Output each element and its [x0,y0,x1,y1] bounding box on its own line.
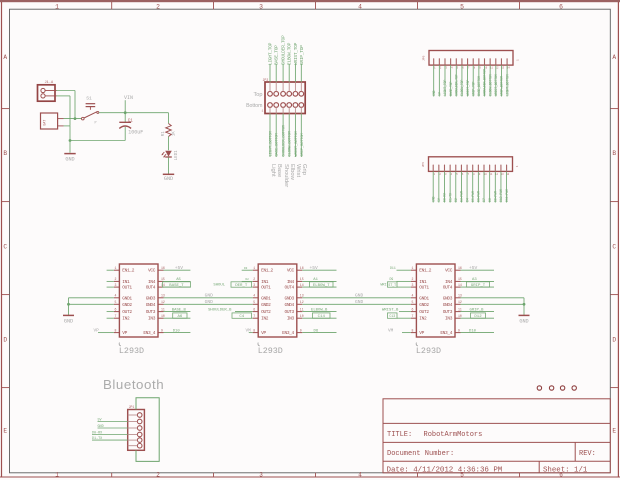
svg-text:GND4: GND4 [146,302,156,308]
svg-text:5: 5 [460,4,464,11]
svg-text:2: 2 [253,277,255,281]
svg-text:D6-PWM: D6-PWM [477,191,481,202]
svg-text:RobotArmMotors: RobotArmMotors [424,431,483,439]
svg-text:+5V: +5V [469,265,478,271]
svg-text:1K: 1K [173,131,177,137]
svg-text:11: 11 [300,307,304,311]
svg-text:Grip: Grip [301,164,307,175]
svg-text:IN4: IN4 [445,279,453,285]
svg-text:Shoulder: Shoulder [283,164,289,187]
svg-text:14: 14 [161,283,165,287]
svg-text:Date: 4/11/2012 4:36:36 PM: Date: 4/11/2012 4:36:36 PM [387,466,503,474]
svg-text:IN2: IN2 [122,316,130,322]
svg-text:L293D: L293D [416,346,441,356]
svg-text:9: 9 [300,328,302,332]
svg-text:IN2: IN2 [261,316,269,322]
svg-text:3: 3 [411,283,413,287]
svg-text:IN3: IN3 [148,316,156,322]
svg-text:VCC: VCC [287,268,295,274]
svg-text:IN2: IN2 [419,316,427,322]
svg-text:13: 13 [458,294,462,298]
svg-text:WRIST_TOP: WRIST_TOP [466,80,470,96]
svg-text:D0-RX: D0-RX [443,193,447,202]
svg-text:GND: GND [519,318,528,324]
svg-text:GND: GND [355,299,364,305]
svg-text:GND: GND [205,293,214,299]
svg-text:4: 4 [253,294,255,298]
svg-text:3: 3 [259,4,263,11]
svg-text:VIN: VIN [124,95,133,101]
svg-text:D11: D11 [390,266,396,270]
svg-text:1: 1 [411,266,413,270]
svg-text:IN3: IN3 [287,316,295,322]
svg-text:16: 16 [300,266,304,270]
svg-text:6: 6 [253,307,255,311]
svg-text:GND: GND [98,425,104,429]
svg-text:4: 4 [114,294,116,298]
svg-text:GND1: GND1 [122,295,132,301]
svg-text:4: 4 [358,472,362,479]
svg-text:EN1_2: EN1_2 [122,268,134,274]
svg-text:3: 3 [253,283,255,287]
svg-text:9: 9 [161,328,163,332]
svg-text:EN1_2: EN1_2 [261,268,273,274]
svg-text:GND3: GND3 [443,295,453,301]
svg-text:16: 16 [458,266,462,270]
svg-text:5: 5 [114,300,116,304]
svg-text:A: A [3,54,7,61]
svg-text:P: P [95,122,97,126]
svg-text:11: 11 [161,307,165,311]
svg-text:VM: VM [246,328,252,333]
svg-text:OUT3: OUT3 [284,309,294,315]
svg-text:D8: D8 [488,198,492,202]
svg-text:WRIST_B: WRIST_B [382,308,399,312]
svg-text:WRIST_BOTTOM: WRIST_BOTTOM [494,74,498,96]
svg-text:ELBOW_BOTTOM: ELBOW_BOTTOM [289,130,293,156]
svg-text:TITLE:: TITLE: [387,431,412,439]
svg-text:13: 13 [300,294,304,298]
svg-text:GRIP_T: GRIP_T [471,284,486,288]
svg-text:D: D [612,336,616,343]
svg-text:C4: C4 [239,315,244,319]
svg-text:SHOUL: SHOUL [213,284,225,288]
svg-text:ST_T: ST_T [388,283,396,287]
svg-text:VCC: VCC [445,268,453,274]
svg-text:EN3_4: EN3_4 [143,330,155,336]
svg-text:REV:: REV: [579,450,596,458]
svg-text:12: 12 [458,300,462,304]
svg-text:7: 7 [253,314,255,318]
svg-text:BASE_TOP: BASE_TOP [449,81,453,95]
svg-text:IN4: IN4 [148,279,156,285]
svg-text:DER_T: DER_T [235,284,248,288]
svg-text:1: 1 [55,472,59,479]
svg-text:Elbow: Elbow [289,164,295,181]
svg-text:D11-PWM: D11-PWM [505,189,509,202]
svg-text:GRIP_TOP: GRIP_TOP [471,81,475,95]
svg-text:LIGHT_BOTTOM: LIGHT_BOTTOM [270,130,274,156]
svg-text:OUT2: OUT2 [261,309,271,315]
svg-text:ELBOW_B: ELBOW_B [311,308,328,312]
svg-text:L293D: L293D [119,346,144,356]
svg-text:SHOULDER_B: SHOULDER_B [208,308,232,312]
svg-text:GRIP_BOTTOM: GRIP_BOTTOM [301,132,305,156]
svg-text:100uF: 100uF [128,129,143,135]
svg-text:5V: 5V [438,92,442,96]
svg-text:BAT: BAT [43,120,47,126]
svg-text:6: 6 [559,4,563,11]
svg-text:WRIST_BOTTOM: WRIST_BOTTOM [295,130,299,156]
svg-text:VP: VP [261,330,266,336]
svg-text:D1-TX: D1-TX [92,437,102,441]
svg-text:IN4: IN4 [287,279,295,285]
svg-text:GND: GND [431,196,435,202]
svg-text:WRIST_TOP: WRIST_TOP [293,42,299,65]
svg-text:2: 2 [156,472,160,479]
svg-text:JP6: JP6 [423,55,426,61]
svg-text:Document Number:: Document Number: [387,450,454,458]
svg-text:OUT2: OUT2 [419,309,429,315]
svg-text:D10: D10 [173,329,181,333]
svg-text:OUT4: OUT4 [443,285,453,291]
svg-text:10: 10 [458,314,462,318]
svg-text:L293D: L293D [258,346,283,356]
svg-text:C14: C14 [318,315,326,319]
svg-text:GND2: GND2 [261,302,271,308]
svg-text:B: B [3,150,7,157]
svg-text:IN1: IN1 [419,279,427,285]
svg-text:GND: GND [355,293,364,299]
svg-text:OUT4: OUT4 [284,285,294,291]
svg-text:GND2: GND2 [419,302,429,308]
svg-text:S1: S1 [86,95,92,101]
svg-text:GRIP_BOTTOM: GRIP_BOTTOM [500,76,504,96]
svg-text:10: 10 [161,314,165,318]
svg-text:D9-PWM: D9-PWM [493,191,497,202]
svg-text:VP: VP [122,330,127,336]
svg-text:Bluetooth: Bluetooth [103,377,164,392]
svg-text:14: 14 [458,283,462,287]
svg-text:J1-A: J1-A [45,81,54,85]
svg-text:OUT1: OUT1 [419,285,429,291]
svg-text:ELBOW_TOP: ELBOW_TOP [287,42,293,65]
svg-text:1: 1 [55,4,59,11]
svg-text:WRI: WRI [381,284,387,288]
svg-text:7: 7 [411,314,413,318]
svg-text:LIGHT_TOP: LIGHT_TOP [443,80,447,96]
svg-text:15: 15 [161,277,165,281]
svg-text:SHOULDER_BOTTOM: SHOULDER_BOTTOM [283,124,287,156]
svg-text:D9: D9 [390,277,394,281]
svg-text:Wrist: Wrist [295,164,301,177]
svg-text:VCC: VCC [148,268,156,274]
svg-text:A6: A6 [177,315,182,319]
svg-text:C: C [612,243,616,250]
svg-text:D2: D2 [246,278,250,281]
svg-text:1: 1 [114,266,116,270]
svg-text:IN1: IN1 [122,279,130,285]
svg-text:10: 10 [300,314,304,318]
svg-text:Base: Base [276,164,282,177]
svg-text:5V: 5V [437,198,441,202]
svg-text:+5V: +5V [310,265,319,271]
svg-text:GND2: GND2 [122,302,132,308]
svg-text:D10: D10 [469,329,477,333]
svg-text:9: 9 [458,328,460,332]
svg-text:LIGHT_BOTTOM: LIGHT_BOTTOM [505,74,509,96]
svg-text:D12: D12 [474,315,482,319]
svg-text:OUT3: OUT3 [443,309,453,315]
svg-text:GND3: GND3 [284,295,294,301]
svg-text:GRIP_TOP: GRIP_TOP [299,45,305,65]
svg-text:Light: Light [270,164,276,177]
svg-text:A: A [612,54,616,61]
svg-text:R1: R1 [162,131,166,137]
svg-text:Top: Top [253,92,262,98]
svg-text:3: 3 [259,472,263,479]
svg-text:D3: D3 [244,267,248,270]
svg-text:D4: D4 [465,198,469,202]
svg-text:D5-PWM: D5-PWM [471,191,475,202]
svg-text:11: 11 [458,307,462,311]
svg-text:D10-PWM: D10-PWM [499,189,503,202]
svg-text:14: 14 [300,283,304,287]
svg-text:OUT1: OUT1 [261,285,271,291]
svg-text:B: B [612,150,616,157]
svg-text:JP5: JP5 [422,162,425,168]
svg-text:GND4: GND4 [443,302,453,308]
svg-text:6: 6 [114,307,116,311]
svg-text:5: 5 [411,300,413,304]
svg-text:ELBOW_TOP: ELBOW_TOP [460,80,464,96]
svg-text:C1: C1 [128,119,134,123]
svg-text:6: 6 [411,307,413,311]
svg-text:VM: VM [388,328,394,333]
svg-text:JP2: JP2 [263,78,269,82]
svg-text:ELBOW_BOTTOM: ELBOW_BOTTOM [488,74,492,96]
svg-text:OUT3: OUT3 [146,309,156,315]
svg-text:C: C [3,243,7,250]
svg-text:GND: GND [64,318,73,324]
svg-text:15: 15 [458,277,462,281]
svg-text:D: D [3,336,7,343]
svg-text:OUT4: OUT4 [146,285,156,291]
svg-text:2: 2 [156,4,160,11]
svg-text:SHOULDER_TOP: SHOULDER_TOP [454,74,458,96]
svg-text:IN1: IN1 [261,279,269,285]
svg-text:4: 4 [411,294,413,298]
svg-text:1: 1 [517,59,520,61]
svg-text:3: 3 [114,283,116,287]
svg-text:13: 13 [161,294,165,298]
svg-text:12: 12 [300,300,304,304]
svg-text:Sheet: 1/1: Sheet: 1/1 [543,466,588,474]
svg-text:VP: VP [419,330,424,336]
svg-text:1: 1 [516,165,519,167]
svg-text:GND: GND [205,299,214,305]
svg-text:OUT2: OUT2 [122,309,132,315]
svg-text:GND1: GND1 [261,295,271,301]
svg-text:2: 2 [411,277,413,281]
svg-text:BASE_B: BASE_B [172,308,187,312]
svg-text:E: E [612,427,616,434]
svg-text:12: 12 [161,300,165,304]
svg-text:BASE_TOP: BASE_TOP [274,45,280,65]
svg-text:5: 5 [253,300,255,304]
svg-text:BASE_BOTTOM: BASE_BOTTOM [477,76,481,96]
svg-text:BASE_BOTTOM: BASE_BOTTOM [276,132,280,156]
svg-text:C13: C13 [389,314,395,318]
svg-text:D6: D6 [314,329,319,333]
svg-text:JP1: JP1 [129,405,135,409]
svg-text:GND3: GND3 [146,295,156,301]
svg-text:LED1: LED1 [175,150,179,161]
svg-text:16: 16 [161,266,165,270]
svg-text:15: 15 [300,277,304,281]
svg-text:ELBOW_T: ELBOW_T [313,284,330,288]
svg-text:8: 8 [114,328,116,332]
svg-text:1: 1 [262,110,264,113]
svg-text:GND: GND [432,90,436,96]
svg-text:1: 1 [253,266,255,270]
svg-text:8: 8 [411,328,413,332]
svg-text:8: 8 [253,328,255,332]
svg-text:BASE_T: BASE_T [169,284,184,288]
svg-text:D0-RX: D0-RX [92,431,102,435]
svg-text:GND: GND [65,156,74,162]
svg-text:D7: D7 [482,198,486,202]
svg-text:+5V: +5V [175,265,184,271]
svg-text:SHOULDER_BOTTOM: SHOULDER_BOTTOM [483,69,487,96]
svg-text:IN3: IN3 [445,316,453,322]
svg-text:EN1_2: EN1_2 [419,268,431,274]
svg-text:7: 7 [114,314,116,318]
svg-text:E: E [3,427,7,434]
svg-text:Bottom: Bottom [246,103,262,109]
svg-text:D2: D2 [454,198,458,202]
svg-text:D3-PWM: D3-PWM [460,191,464,202]
svg-text:EN3_4: EN3_4 [440,330,452,336]
svg-text:LIGHT_TOP: LIGHT_TOP [268,42,274,65]
svg-text:EN3_4: EN3_4 [282,330,294,336]
svg-text:D1-TX: D1-TX [448,193,452,202]
svg-text:GRIP_B: GRIP_B [470,308,485,312]
svg-text:SHOULDER_TOP: SHOULDER_TOP [281,35,287,65]
svg-text:OUT1: OUT1 [122,285,132,291]
svg-text:GND: GND [164,176,173,182]
svg-text:GND1: GND1 [419,295,429,301]
svg-text:2: 2 [114,277,116,281]
svg-text:VP: VP [94,328,100,333]
svg-text:GND4: GND4 [284,302,294,308]
svg-text:4: 4 [358,4,362,11]
